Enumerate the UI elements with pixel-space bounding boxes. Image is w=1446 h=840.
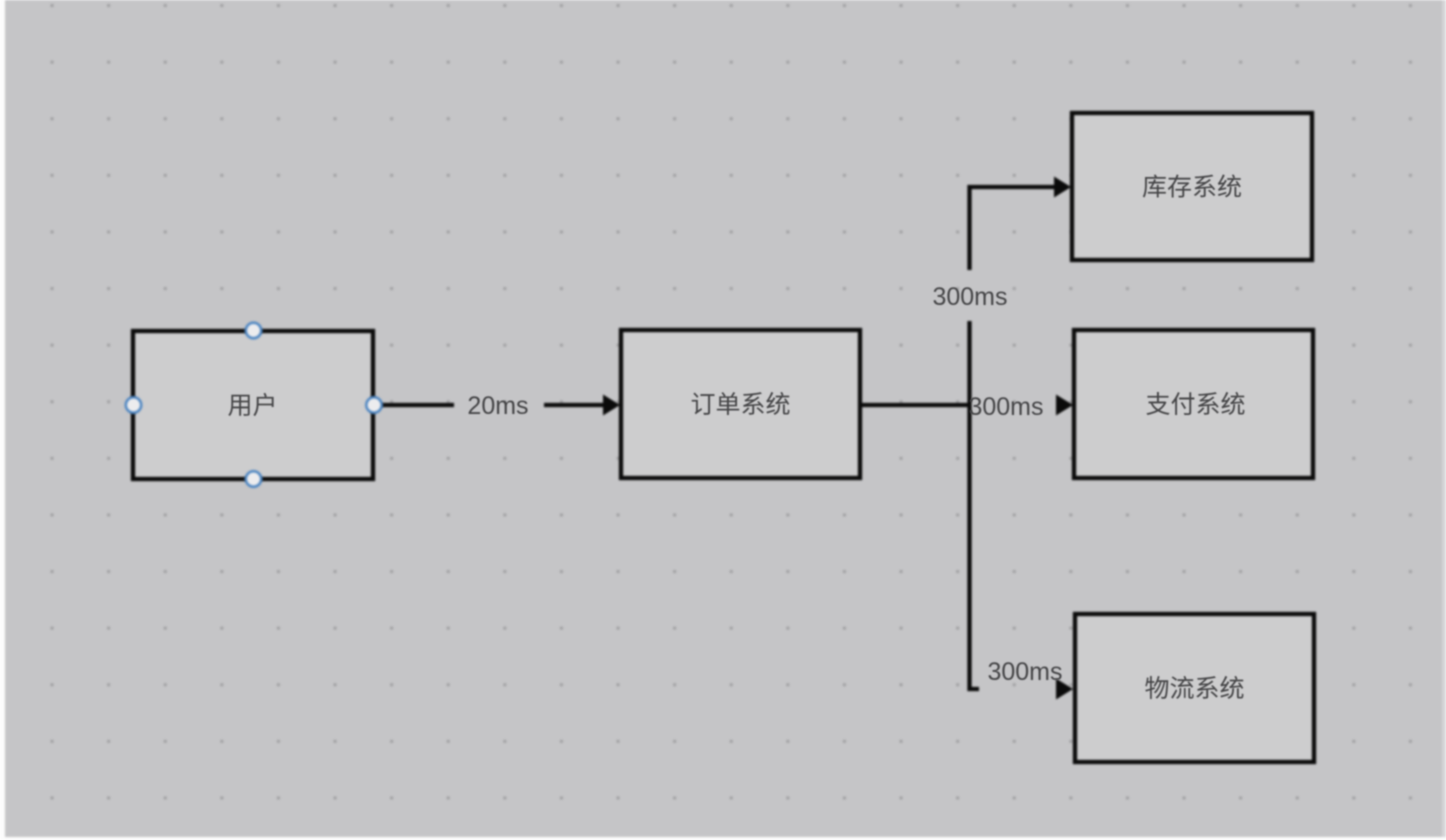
label 物流系统 — [1145, 676, 1243, 699]
wire spine up segment (405 to label gap) — [967, 321, 971, 405]
label 用户 — [228, 393, 273, 416]
svg-text:300ms: 300ms — [968, 393, 1043, 421]
wire spine up segment (label gap to corner) + top horizontal — [970, 187, 1055, 270]
wire 用户→订单系统 segment 2 — [544, 403, 603, 407]
white page edge right — [1442, 0, 1446, 840]
svg-text:300ms: 300ms — [932, 283, 1007, 311]
arrowhead into 物流系统 — [1056, 679, 1073, 700]
label 支付系统 — [1146, 392, 1244, 415]
node 支付系统 box — [1074, 330, 1313, 478]
handle left of 用户 — [126, 397, 141, 412]
wire spine down + bottom elbow — [970, 405, 980, 689]
wire 用户→订单系统 segment 1 — [376, 403, 454, 407]
label 库存系统 — [1143, 174, 1241, 197]
label 订单系统 — [692, 392, 790, 415]
arrowhead into 支付系统 — [1056, 395, 1073, 416]
white page edge bottom — [0, 837, 1446, 840]
svg-text:300ms: 300ms — [987, 658, 1062, 686]
node 订单系统 box — [621, 330, 860, 478]
handle top of 用户 — [246, 323, 261, 338]
arrowhead into 库存系统 — [1054, 177, 1071, 198]
node 物流系统 box — [1075, 614, 1314, 762]
wire 订单系统→支付系统 — [862, 403, 969, 407]
arrowhead into 订单系统 — [603, 395, 620, 416]
handle right of 用户 — [366, 397, 381, 412]
node 用户 box — [133, 331, 373, 479]
node 库存系统 box — [1072, 113, 1312, 260]
svg-text:20ms: 20ms — [467, 392, 528, 420]
handle bottom of 用户 — [246, 471, 261, 486]
white page edge left — [0, 0, 5, 840]
